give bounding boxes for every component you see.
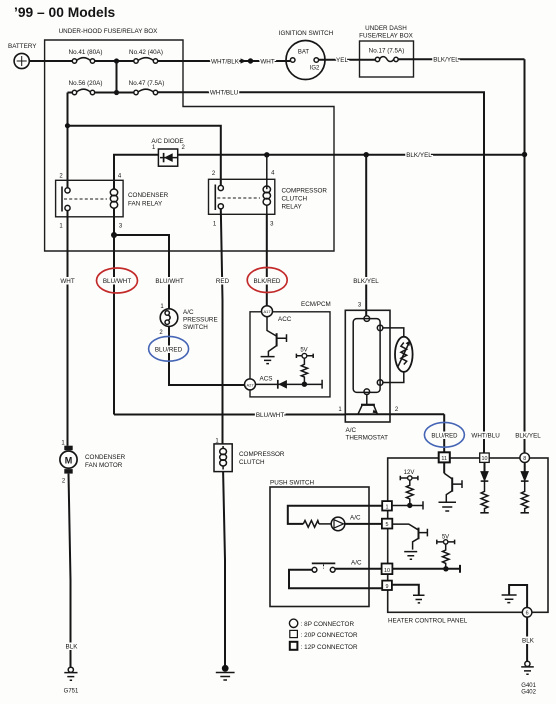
wire BLK fan motor to ground (66, 474, 79, 668)
svg-text:PRESSURE: PRESSURE (183, 317, 218, 324)
connector 10 (heater panel left) (382, 564, 393, 575)
svg-text:BLU/RED: BLU/RED (431, 433, 458, 439)
svg-text:No.17 (7.5A): No.17 (7.5A) (369, 48, 405, 55)
diode D3 (column 10) (481, 462, 489, 481)
svg-text:WHT: WHT (260, 58, 274, 65)
svg-text:COMPRESSOR: COMPRESSOR (282, 188, 328, 195)
svg-text:BLU/RED: BLU/RED (155, 347, 183, 354)
ECM/PCM box (250, 301, 331, 397)
svg-text:RED: RED (216, 278, 230, 285)
A/C pressure switch (159, 304, 217, 336)
svg-text:8: 8 (523, 456, 526, 462)
svg-text:ECM/PCM: ECM/PCM (301, 301, 331, 308)
wire YEL (319, 57, 376, 64)
wire WHT/BLU to heater panel connector 10 (158, 90, 484, 454)
wire (95, 60, 134, 62)
svg-text:No.56 (20A): No.56 (20A) (69, 80, 103, 87)
svg-text:10: 10 (482, 456, 488, 462)
wire battery to fuse row1 (29, 60, 72, 62)
wire WHT/BLK to ignition switch (158, 58, 291, 65)
svg-text:FUSE/RELAY BOX: FUSE/RELAY BOX (359, 33, 413, 40)
resistor R6 (5V) (443, 544, 450, 571)
svg-text:5: 5 (386, 522, 389, 528)
diode D4 (column 8) (521, 463, 529, 482)
wire connector1 loop to resistor/lamp (288, 506, 382, 524)
svg-text:No.47 (7.5A): No.47 (7.5A) (129, 80, 165, 87)
svg-text:PUSH SWITCH: PUSH SWITCH (270, 480, 315, 487)
A/C thermostat (345, 155, 390, 442)
svg-text:ACC: ACC (278, 316, 292, 323)
thermistor (A/C thermostat sensor) (383, 328, 413, 383)
wire BLK/YEL horizontal (178, 152, 525, 159)
fuse No.56 (20A) (69, 80, 103, 95)
red oval highlight BLU/WHT (97, 268, 138, 293)
resistor R2 (push switch illumination) (303, 521, 319, 528)
fuse No.47 (7.5A) (129, 80, 165, 95)
blue oval highlight BLU/RED (right) (424, 422, 464, 447)
fuse No.42 (40A) (129, 49, 163, 63)
wire compressor clutch to ground (223, 472, 225, 669)
svg-text:G402: G402 (521, 690, 536, 696)
svg-text:COMPRESSOR: COMPRESSOR (239, 451, 285, 458)
svg-text:UNDER-HOOD FUSE/RELAY BOX: UNDER-HOOD FUSE/RELAY BOX (59, 28, 159, 35)
node fuse row junction (114, 58, 119, 95)
svg-text:THERMOSTAT: THERMOSTAT (346, 435, 389, 442)
svg-text:BLU/WHT: BLU/WHT (256, 412, 284, 419)
wire BLU/WHT to thermostat pin1 (114, 407, 444, 419)
resistor R3 (12V pull-up) (406, 480, 413, 508)
wire connector1 to stub (392, 501, 423, 509)
svg-text:A/C: A/C (350, 515, 361, 522)
wire BLU/WHT condenser relay pin3 (103, 208, 131, 415)
compressor clutch (214, 439, 285, 472)
ground (compressor clutch) (216, 665, 235, 680)
legend 12P connector (290, 642, 358, 651)
svg-text:10: 10 (384, 568, 390, 574)
ground (Q2 emitter) (439, 502, 457, 511)
svg-text:FAN MOTOR: FAN MOTOR (85, 462, 123, 469)
fuse No.17 (7.5A) (375, 57, 398, 62)
resistor R4 (column 10) (480, 481, 488, 513)
svg-text:CONDENSER: CONDENSER (128, 192, 169, 199)
svg-text:A/C: A/C (346, 427, 357, 434)
svg-text:9: 9 (386, 584, 389, 590)
legend 8P connector (289, 619, 354, 628)
wire branch to pressure switch (114, 235, 184, 309)
svg-text:BAT: BAT (298, 50, 310, 56)
svg-text:ACS: ACS (260, 376, 273, 383)
wire BLK connector 6 to ground (522, 617, 535, 661)
connector A17 (262, 306, 292, 323)
ignition switch (279, 30, 334, 80)
svg-text:11: 11 (441, 456, 447, 462)
svg-text:WHT: WHT (60, 278, 74, 285)
svg-text:No.42 (40A): No.42 (40A) (129, 49, 163, 56)
node compressor coil feed (264, 152, 269, 157)
transistor Q1 (ECM ACC driver) (267, 317, 287, 357)
svg-text:G401: G401 (521, 683, 536, 689)
compressor clutch relay (209, 155, 328, 228)
svg-text:’99 – 00 Models: ’99 – 00 Models (14, 5, 116, 20)
connector 6 (8P) (522, 608, 532, 618)
svg-text:No.41 (80A): No.41 (80A) (69, 49, 103, 56)
svg-text:WHT/BLU: WHT/BLU (471, 432, 500, 439)
connector 5 (heater panel) (382, 519, 392, 529)
svg-text:12V: 12V (404, 470, 415, 476)
svg-text:WHT/BLK: WHT/BLK (211, 58, 240, 65)
svg-text:WHT/BLU: WHT/BLU (210, 90, 239, 97)
condenser fan relay (56, 174, 169, 230)
A/C indicator lamp (319, 515, 382, 531)
red oval highlight BLK/RED (247, 268, 287, 293)
under-hood fuse/relay box (45, 28, 334, 251)
svg-text:RELAY: RELAY (282, 204, 303, 211)
svg-text:BLU/WHT: BLU/WHT (103, 278, 131, 285)
wire fuse 56 feed down to relays (65, 93, 221, 189)
transistor Q3 (connector 5 input) (392, 524, 427, 550)
battery (8, 43, 37, 69)
svg-text:CONDENSER: CONDENSER (85, 454, 126, 461)
svg-text:: 8P CONNECTOR: : 8P CONNECTOR (301, 621, 355, 628)
wire connector 9 to ground (392, 585, 419, 595)
svg-text:BLK/YEL: BLK/YEL (353, 278, 379, 285)
ground (Q3 emitter) (404, 552, 417, 560)
svg-text:SWITCH: SWITCH (183, 324, 208, 331)
wire BLK/YEL top (398, 57, 524, 64)
svg-text:A/C DIODE: A/C DIODE (151, 138, 183, 145)
wire BLU/RED pressure switch to ECM A27 (155, 326, 245, 385)
svg-text:FAN RELAY: FAN RELAY (128, 201, 163, 208)
svg-text:BATTERY: BATTERY (8, 43, 37, 50)
svg-text:BLK/YEL: BLK/YEL (515, 432, 541, 439)
svg-text:CLUTCH: CLUTCH (282, 196, 308, 203)
svg-text:G751: G751 (64, 689, 79, 695)
svg-text:BLK/RED: BLK/RED (254, 278, 281, 285)
resistor R5 (column 8) (521, 481, 529, 513)
12V supply (heater panel) (400, 470, 418, 480)
wire BLU/RED thermostat pin2 to connector 11 (431, 414, 458, 452)
thermostat output transistor (358, 395, 377, 414)
ground G401 G402 (521, 661, 536, 695)
ground (connector 9) (413, 595, 425, 603)
wire RED compressor relay pin1 to compressor clutch (216, 209, 230, 444)
5V supply (heater panel) (437, 534, 455, 544)
svg-text:BLK: BLK (522, 638, 535, 645)
svg-text:: 12P CONNECTOR: : 12P CONNECTOR (301, 644, 358, 651)
under-dash fuse/relay box (359, 25, 413, 77)
resistor R1 (ECM 5V pull-up) (301, 358, 307, 387)
svg-text:5V: 5V (300, 348, 307, 354)
connector 10 (20P, top) (480, 453, 490, 462)
svg-text:: 20P CONNECTOR: : 20P CONNECTOR (301, 632, 358, 639)
A/C push switch contacts (289, 560, 382, 589)
svg-text:A/C: A/C (183, 309, 194, 316)
svg-text:IGNITION SWITCH: IGNITION SWITCH (279, 30, 334, 37)
connector 11 (12P) (439, 452, 450, 462)
ground (heater panel internal) (502, 585, 527, 608)
A/C diode D1 (151, 138, 185, 166)
svg-text:A17: A17 (263, 309, 271, 314)
5V supply (ECM) (296, 348, 313, 359)
heater control panel box (388, 458, 548, 625)
connector 8 (8P) (520, 453, 530, 463)
legend 20P connector (290, 630, 358, 639)
connector 9 (heater panel) (382, 581, 392, 590)
fuse No.41 (80A) (69, 49, 103, 63)
connector 1 (heater panel) (382, 501, 392, 510)
svg-text:BLK/YEL: BLK/YEL (433, 57, 459, 64)
svg-text:HEATER CONTROL PANEL: HEATER CONTROL PANEL (388, 618, 468, 625)
push switch box (270, 480, 369, 607)
wire BLK/RED compressor relay pin3 to ECM A17 (254, 214, 281, 306)
svg-text:A/C: A/C (351, 560, 362, 567)
svg-text:BLK/YEL: BLK/YEL (406, 152, 432, 159)
wire connector 10 to stub (392, 565, 460, 573)
svg-text:UNDER DASH: UNDER DASH (365, 25, 407, 32)
svg-text:A27: A27 (246, 382, 254, 387)
svg-text:M: M (65, 455, 73, 465)
connector A27 (245, 376, 273, 390)
wire diode pin1 to condenser fan relay coil (114, 155, 158, 190)
svg-text:CLUTCH: CLUTCH (239, 459, 265, 466)
condenser fan motor M (60, 441, 126, 485)
wire fuse row2 left (68, 92, 134, 94)
svg-text:IG2: IG2 (310, 66, 320, 72)
svg-text:BLK: BLK (66, 644, 79, 651)
wire BLK/YEL right column to connector 8 (524, 59, 526, 453)
transistor Q2 (connector 11 driver) (444, 462, 462, 501)
diode D2 (ECM ACS) (256, 380, 323, 389)
wire WHT condenser relay pin1 to fan motor (60, 211, 74, 446)
blue oval highlight BLU/RED (149, 336, 189, 361)
ground G751 (64, 667, 79, 694)
svg-text:BLU/WHT: BLU/WHT (155, 278, 183, 285)
svg-text:6: 6 (526, 611, 529, 617)
node BLK/YEL junction (522, 152, 527, 157)
svg-text:YEL: YEL (336, 57, 348, 64)
ground (ECM transistor emitter) (261, 357, 275, 364)
svg-text:1: 1 (386, 504, 389, 510)
node thermostat feed (364, 152, 369, 157)
